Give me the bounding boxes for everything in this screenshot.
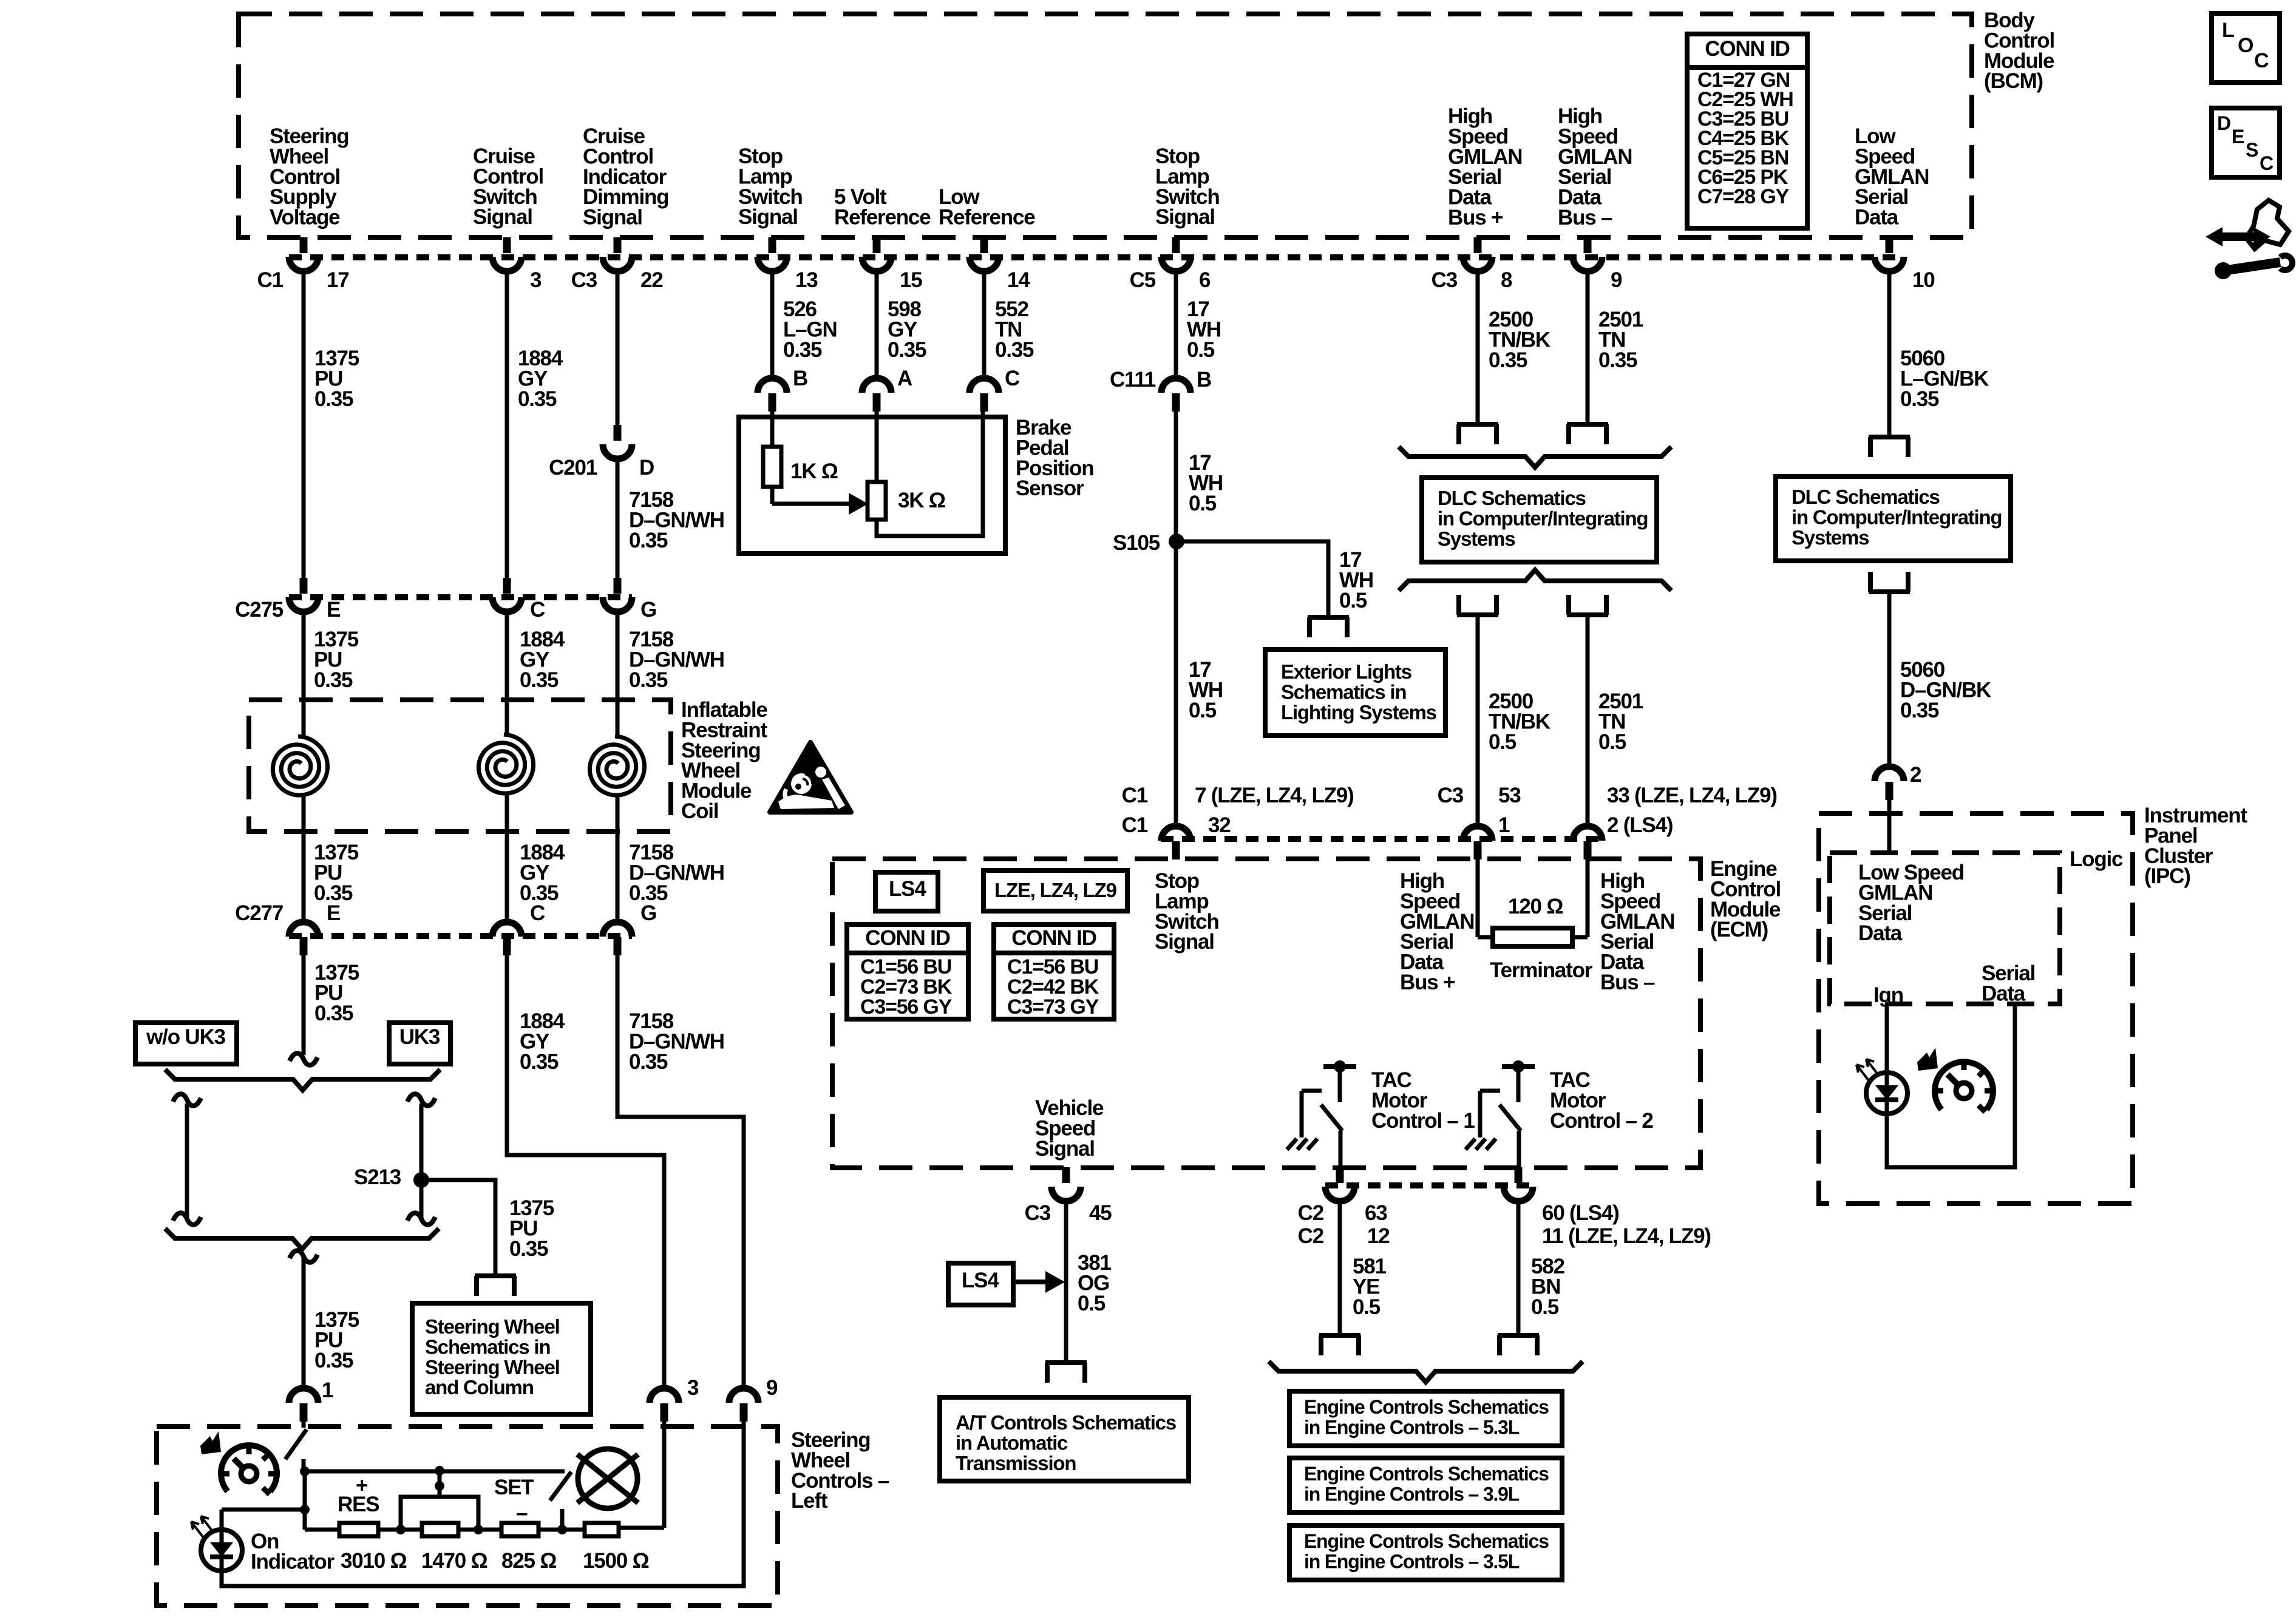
svg-text:Bus –: Bus – (1558, 206, 1612, 229)
wire: On Indicator return to connector 9 (222, 1422, 744, 1586)
wire: branch to On Indicator LED (222, 1510, 305, 1530)
svg-text:Terminator: Terminator (1490, 958, 1593, 982)
svg-text:Systems: Systems (1792, 526, 1869, 549)
reference box: Engine Controls Schematics 3.9L (1289, 1458, 1562, 1513)
svg-text:1: 1 (322, 1378, 333, 1402)
ECM bottom connector strip (dashed) (1325, 1182, 1533, 1188)
label: 2500 TN/BK 0.5 (1489, 690, 1550, 754)
wire: 7158, C201 to C275 (616, 459, 620, 578)
IPC pin label: Low Speed GMLAN Serial Data (1858, 861, 1964, 945)
svg-text:B: B (1197, 368, 1211, 392)
variant box LS4 with arrow (948, 1263, 1065, 1305)
wire: 1884 GY, C275 to coil (505, 612, 509, 734)
svg-text:2: 2 (1910, 763, 1921, 787)
svg-text:0.5: 0.5 (1598, 730, 1626, 754)
label: Brake Pedal Position Sensor (1016, 416, 1093, 500)
wire: Ign feed (1885, 1004, 1889, 1073)
label: 1375 PU 0.35 (below coil) (314, 841, 359, 905)
connector C275 terminal E (235, 578, 340, 622)
svg-text:1470 Ω: 1470 Ω (421, 1549, 487, 1573)
svg-text:0.35: 0.35 (629, 529, 668, 552)
reference box: A/T Controls Schematics (940, 1397, 1189, 1481)
svg-text:Engine Controls Schematics: Engine Controls Schematics (1304, 1530, 1549, 1552)
brace: GMLAN pair into DLC (1399, 447, 1671, 467)
label: Ign (1873, 983, 1903, 1007)
ECM bottom labels right (1542, 1201, 1711, 1248)
connector C277 row (dashed strip) (289, 933, 632, 939)
wire: 7158 down and over to connector 9 (617, 955, 744, 1388)
svg-text:Control – 2: Control – 2 (1550, 1109, 1653, 1133)
svg-text:2 (LS4): 2 (LS4) (1607, 813, 1673, 837)
reference box: Engine Controls Schematics 5.3L (1289, 1391, 1562, 1446)
svg-text:0.35: 0.35 (995, 338, 1034, 362)
svg-text:0.35: 0.35 (629, 668, 668, 692)
reference box: Exterior Lights Schematics in Lighting Systems (1265, 649, 1445, 736)
svg-text:C: C (2260, 152, 2274, 174)
svg-text:Systems: Systems (1438, 527, 1515, 550)
wire: circuit 598 GY, BCM 15 to sensor A (875, 271, 879, 378)
svg-text:O: O (2238, 34, 2254, 57)
svg-text:C2: C2 (1298, 1201, 1324, 1225)
svg-text:32: 32 (1208, 813, 1231, 837)
svg-text:3: 3 (530, 268, 542, 292)
fork: 2500 from DLC (1457, 595, 1498, 615)
svg-text:C1: C1 (1122, 813, 1148, 837)
module box: Instrument Panel Cluster (dashed) (1819, 813, 2133, 1204)
fork: 5060 to DLC (1869, 437, 1910, 457)
connector C111 terminal B (1110, 368, 1211, 412)
module box: Steering Wheel Controls - Left (dashed) (157, 1426, 778, 1605)
BCM pin label: High Speed GMLAN Serial Data Bus - (1558, 104, 1632, 229)
wire: circuit 2500 TN/BK, BCM C3-8 to DLC (1476, 271, 1480, 423)
fork: 2501 to DLC (1567, 424, 1608, 444)
wire: circuit 2501 TN, BCM 9 to DLC (1586, 271, 1590, 423)
icon: gauge in IPC (1934, 1060, 1994, 1112)
svg-text:A: A (897, 367, 912, 390)
svg-text:C7=28 GY: C7=28 GY (1697, 185, 1790, 208)
connector: sensor terminal B (758, 367, 807, 412)
wire: bus - to terminator (1586, 859, 1590, 937)
ECM connector row labels left (1122, 784, 1354, 837)
svg-text:C: C (530, 901, 545, 925)
connector: ECM TAC motor 1 output (1325, 1167, 1354, 1201)
svg-text:11 (LZE, LZ4, LZ9): 11 (LZE, LZ4, LZ9) (1542, 1224, 1711, 1248)
svg-text:0.35: 0.35 (314, 1349, 353, 1372)
fork to Exterior Lights schematics (1308, 617, 1349, 637)
wire: connector 3 lead inside box (662, 1422, 667, 1528)
svg-text:Lighting Systems: Lighting Systems (1281, 701, 1436, 724)
svg-text:LS4: LS4 (889, 877, 926, 901)
label: terminal 3 (687, 1376, 699, 1400)
svg-text:0.35: 0.35 (314, 387, 353, 411)
connector pin 13 at BCM (row) (758, 237, 818, 292)
reference box: DLC Schematics in Computer/Integrating Systems (right) (1776, 476, 2011, 561)
svg-text:17: 17 (327, 268, 349, 292)
svg-text:7 (LZE, LZ4, LZ9): 7 (LZE, LZ4, LZ9) (1195, 784, 1354, 807)
svg-text:A/T Controls Schematics: A/T Controls Schematics (956, 1411, 1176, 1434)
wire: 17 WH, S105 to ECM (1174, 541, 1178, 826)
label: 7158 D-GN/WH 0.35 (below coil) (629, 841, 724, 905)
connector C277 terminal C (492, 901, 545, 955)
bypass loop over 1470 ohm (401, 1497, 478, 1530)
icon: arrow at IPC gauge (1917, 1048, 1938, 1071)
label: Body Control Module (BCM) (1984, 8, 2054, 93)
fork: 581 to engine controls (1319, 1335, 1360, 1355)
wiper arm with arrow (772, 487, 868, 515)
brace: TAC pair into engine controls (1269, 1361, 1583, 1382)
svg-text:and Column: and Column (425, 1376, 534, 1398)
svg-text:E: E (327, 598, 340, 622)
svg-text:C201: C201 (549, 456, 597, 480)
svg-text:S105: S105 (1113, 531, 1160, 555)
svg-text:B: B (793, 367, 807, 390)
svg-text:1: 1 (1498, 813, 1510, 837)
svg-text:C: C (2254, 49, 2269, 72)
label: Logic (2070, 847, 2123, 871)
svg-text:(ECM): (ECM) (1710, 918, 1768, 941)
wire: circuit 381 OG (1064, 1201, 1068, 1361)
svg-text:0.35: 0.35 (520, 668, 559, 692)
svg-text:C277: C277 (235, 901, 283, 925)
svg-text:C5: C5 (1130, 268, 1156, 292)
svg-text:22: 22 (640, 268, 663, 292)
label: 2501 TN 0.35 (1598, 308, 1643, 372)
svg-text:C: C (1005, 367, 1020, 390)
svg-text:(IPC): (IPC) (2144, 864, 2190, 888)
svg-text:Bus +: Bus + (1400, 971, 1455, 994)
label: 17 WH 0.5 (mid) (1189, 451, 1223, 515)
svg-text:G: G (640, 598, 656, 622)
connector: steering wheel controls terminal 3 (650, 1388, 679, 1422)
svg-text:0.5: 0.5 (1189, 492, 1217, 515)
svg-text:Reference: Reference (834, 205, 931, 229)
brace: UK3 variant merge (lower) (165, 1229, 439, 1249)
junction: On Indicator tap (300, 1505, 310, 1514)
wire: 3K bottom loop to C lead (877, 412, 983, 536)
wire: circuit 5060 L-GN/BK, BCM 10 to DLC (1887, 271, 1892, 436)
svg-text:DLC Schematics: DLC Schematics (1792, 486, 1940, 508)
wire: 1884 GY, coil to C277 (505, 793, 509, 922)
svg-text:13: 13 (795, 268, 818, 292)
component box: Brake Pedal Position Sensor (739, 417, 1005, 554)
svg-text:Data: Data (1982, 981, 2026, 1005)
resistor 1K ohm (vertical) (763, 447, 838, 487)
svg-text:C3: C3 (571, 268, 597, 292)
engine variant box LS4 (875, 872, 938, 911)
label: Steering Wheel Controls - Left (791, 1428, 889, 1513)
svg-text:Left: Left (791, 1489, 828, 1513)
svg-text:0.5: 0.5 (1339, 589, 1367, 612)
module box: Body Control Module (BCM) (239, 14, 1972, 237)
svg-text:in Computer/Integrating: in Computer/Integrating (1438, 507, 1648, 529)
ECM pin label: High Speed GMLAN Serial Data Bus + (1400, 869, 1474, 994)
svg-text:Logic: Logic (2070, 847, 2123, 871)
junction: rail node A (396, 1525, 406, 1534)
wire: serial data into logic (1887, 800, 1892, 853)
junction: rail node C (SET contact) (557, 1525, 567, 1534)
junction: top rail centre (435, 1466, 444, 1476)
BCM pin label: Low Speed GMLAN Serial Data (1855, 124, 1929, 229)
svg-text:3: 3 (687, 1376, 699, 1400)
icon: LOC reference box (2212, 13, 2280, 83)
svg-text:UK3: UK3 (399, 1025, 440, 1049)
ECM pin label: Stop Lamp Switch Signal (1155, 869, 1219, 954)
svg-text:CONN ID: CONN ID (1011, 926, 1096, 950)
svg-text:Exterior Lights: Exterior Lights (1281, 660, 1411, 683)
label: 526 L-GN 0.35 (783, 297, 837, 362)
connector C277 terminal E (235, 901, 340, 955)
BCM pin label: Low Reference (939, 185, 1035, 229)
svg-text:S213: S213 (354, 1165, 401, 1189)
wire: 7158, coil to C277 (616, 795, 620, 922)
connector pin 17 at BCM (terminal C1) (257, 237, 349, 292)
wire: circuit 1884 GY, BCM 3 down to C275 (505, 271, 509, 578)
resistor 1470 ohm (421, 1523, 487, 1573)
label: 2500 TN/BK 0.35 (1489, 308, 1550, 372)
svg-text:Signal: Signal (1155, 930, 1214, 954)
svg-text:DLC Schematics: DLC Schematics (1438, 487, 1586, 509)
label: 1375 PU 0.35 (below C275) (314, 628, 359, 692)
connector: steering wheel controls terminal 1 (289, 1388, 318, 1422)
connector C275 terminal G (603, 578, 656, 622)
connector pin 10 at BCM (row) (1875, 237, 1935, 292)
svg-text:9: 9 (766, 1376, 778, 1400)
wire: 1375 PU to connector 1 (290, 1250, 318, 1388)
svg-text:0.35: 0.35 (314, 1002, 353, 1025)
svg-text:120 Ω: 120 Ω (1508, 895, 1563, 918)
svg-text:0.35: 0.35 (518, 387, 557, 411)
ECM connector row labels centre (1438, 784, 1521, 837)
svg-text:Engine Controls Schematics: Engine Controls Schematics (1304, 1463, 1549, 1485)
BCM pin label: Steering Wheel Control Supply Voltage (270, 124, 348, 229)
svg-text:14: 14 (1007, 268, 1030, 292)
label: 1375 PU 0.35 (S213 branch) (509, 1196, 554, 1261)
label: TAC Motor Control - 2 (1550, 1068, 1653, 1133)
label: 1884 GY 0.35 (lower) (520, 1009, 565, 1074)
svg-text:0.35: 0.35 (1598, 348, 1637, 372)
label: 5060 L-GN/BK 0.35 (1900, 347, 1989, 411)
wire: circuit 1375 PU, BCM C1-17 down to C275 (302, 271, 306, 578)
ECM pin label: High Speed GMLAN Serial Data Bus - (1600, 869, 1674, 994)
label: Inflatable Restraint Steering Wheel Module Coil (681, 698, 767, 823)
fork: 2500 to DLC (1457, 424, 1498, 444)
engine variant box LZE LZ4 LZ9 (983, 870, 1127, 911)
label: terminal 2 (1910, 763, 1921, 787)
svg-text:SET: SET (494, 1476, 534, 1499)
svg-text:60 (LS4): 60 (LS4) (1542, 1201, 1619, 1225)
connector: ECM GMLAN bus - pin 2 (1573, 826, 1602, 859)
BCM pin label: Stop Lamp Switch Signal (738, 144, 803, 229)
svg-text:D: D (2217, 112, 2230, 134)
svg-text:0.35: 0.35 (1900, 699, 1939, 722)
label: + RES (338, 1474, 379, 1516)
reference box: Steering Wheel Schematics (412, 1303, 591, 1414)
fork: 2501 from DLC (1567, 595, 1608, 615)
label: Vehicle Speed Signal (1035, 1096, 1104, 1161)
wire: 2500 TN/BK, DLC to ECM (1476, 615, 1480, 826)
label: 1884 GY 0.35 (below coil) (520, 841, 565, 905)
label: Serial Data (1982, 961, 2035, 1005)
coil spiral 3 (7158 D-GN/WH) (589, 736, 644, 795)
label: Engine Control Module (ECM) (1710, 857, 1781, 941)
svg-text:Signal: Signal (738, 205, 798, 229)
svg-text:Engine Controls Schematics: Engine Controls Schematics (1304, 1396, 1549, 1418)
variant box: UK3 (389, 1023, 450, 1064)
svg-text:in Engine Controls – 5.3L: in Engine Controls – 5.3L (1304, 1416, 1520, 1438)
svg-text:Signal: Signal (1035, 1137, 1095, 1161)
label: terminal 1 (322, 1378, 333, 1402)
svg-text:RES: RES (338, 1493, 379, 1516)
connector pin 15 at BCM (row) (862, 237, 922, 292)
wire: A lead to 3K (875, 412, 879, 482)
label: 1884 GY 0.35 (upper) (518, 347, 563, 411)
TAC motor control 2 driver (1466, 1060, 1535, 1168)
wire: S213 branch to Steering Wheel Schematics (421, 1180, 495, 1275)
connector C275 row (dashed strip) (289, 594, 632, 600)
wire: left rail down (303, 1471, 307, 1530)
BCM pin label: Stop Lamp Switch Signal (C5) (1155, 144, 1220, 229)
svg-text:G: G (640, 901, 656, 925)
resistor 1500 ohm (583, 1523, 649, 1573)
svg-text:C1: C1 (257, 268, 284, 292)
svg-text:63: 63 (1365, 1201, 1387, 1225)
svg-text:1500 Ω: 1500 Ω (583, 1549, 649, 1573)
connector: ECM TAC motor 2 output (1504, 1167, 1533, 1201)
svg-text:0.35: 0.35 (520, 1050, 559, 1074)
svg-text:w/o UK3: w/o UK3 (146, 1025, 225, 1049)
svg-text:825 Ω: 825 Ω (501, 1549, 556, 1573)
connector pin 6 at BCM (terminal C5) (1130, 237, 1211, 292)
svg-text:0.35: 0.35 (1900, 387, 1939, 411)
label: 552 TN 0.35 (995, 297, 1034, 362)
coil spiral 1 (1375 PU) (273, 736, 327, 795)
connector: IPC terminal 2 (1875, 767, 1904, 800)
label: 598 GY 0.35 (888, 297, 926, 362)
brace: GMLAN pair out of DLC (1399, 570, 1671, 591)
TAC motor control 1 driver (1287, 1060, 1356, 1168)
BCM pin label: Cruise Control Switch Signal (473, 144, 543, 229)
svg-text:3010 Ω: 3010 Ω (341, 1549, 407, 1573)
svg-text:8: 8 (1501, 268, 1512, 292)
branch w/o UK3: bracket wire (173, 1094, 201, 1225)
connector: ECM vehicle speed signal C3-45 (1025, 1167, 1112, 1225)
svg-text:15: 15 (900, 268, 922, 292)
svg-text:10: 10 (1912, 268, 1935, 292)
wire: top rail (305, 1470, 565, 1474)
label: 582 BN 0.5 (1531, 1255, 1565, 1319)
LED: telltale in IPC (1856, 1059, 1907, 1114)
svg-text:CONN ID: CONN ID (1705, 37, 1789, 61)
connector pin 14 at BCM (row) (970, 237, 1030, 292)
switch: cruise on/off (285, 1422, 307, 1471)
svg-text:Sensor: Sensor (1016, 476, 1084, 500)
connector C275 terminal C (492, 578, 545, 622)
BCM pin label: High Speed GMLAN Serial Data Bus + (1448, 104, 1522, 229)
svg-text:D: D (639, 456, 654, 480)
stub to 1470 bypass (435, 1471, 444, 1497)
svg-text:C3=56 GY: C3=56 GY (860, 995, 953, 1019)
svg-text:6: 6 (1199, 268, 1211, 292)
wire: 1375 PU, C275 to coil (302, 612, 306, 736)
wire: 17 WH, C111 to S105 (1174, 412, 1178, 541)
svg-text:in Engine Controls – 3.9L: in Engine Controls – 3.9L (1304, 1483, 1520, 1505)
svg-text:33 (LZE, LZ4, LZ9): 33 (LZE, LZ4, LZ9) (1607, 784, 1777, 807)
wire: circuit 552 TN, BCM 14 to sensor C (982, 271, 987, 378)
svg-text:C: C (530, 598, 545, 622)
wire: B lead to 1K (770, 412, 775, 447)
lamp: illumination (577, 1449, 638, 1508)
svg-text:C3: C3 (1438, 784, 1464, 807)
logic box (dashed) (1830, 853, 2060, 1004)
icon: pointer arrow with wrench (2206, 200, 2292, 279)
label: 2501 TN 0.5 (1598, 690, 1643, 754)
label: 7158 D-GN/WH 0.35 (below C275) (629, 628, 724, 692)
svg-text:Data: Data (1855, 206, 1899, 229)
connector pin 9 at BCM (row) (1573, 237, 1622, 292)
svg-text:C1: C1 (1122, 784, 1148, 807)
resistor 3010 ohm (339, 1523, 407, 1573)
svg-text:Ign: Ign (1873, 983, 1903, 1007)
label: TAC Motor Control - 1 (1371, 1068, 1475, 1133)
svg-text:L: L (2222, 19, 2234, 42)
svg-text:Data: Data (1858, 921, 1903, 945)
icon: arrow at gauge (200, 1431, 221, 1454)
fork to Steering Wheel Schematics (475, 1276, 516, 1296)
module box: Inflatable Restraint Steering Wheel Module Coil (dashed) (249, 700, 671, 832)
connector: ECM stop lamp switch signal (1161, 826, 1190, 859)
splice S105 (1113, 531, 1184, 555)
BCM connector strip C1..C3 (dashed) (289, 254, 1904, 260)
brace: UK3 variant split (upper) (165, 1070, 440, 1090)
ECM bottom labels left (1298, 1201, 1390, 1248)
reference box: Engine Controls Schematics 3.5L (1289, 1525, 1562, 1580)
coil spiral 2 (1884 GY) (478, 734, 533, 793)
ECM connector strip (dashed) (1161, 836, 1602, 842)
svg-text:0.5: 0.5 (1078, 1292, 1106, 1315)
BCM CONN ID table (1687, 34, 1807, 228)
label: terminal 9 (766, 1376, 778, 1400)
svg-text:0.35: 0.35 (783, 338, 822, 362)
fork: 582 to engine controls (1498, 1335, 1539, 1355)
label: 17 WH 0.5 (upper) (1187, 297, 1221, 362)
svg-text:LZE, LZ4, LZ9: LZE, LZ4, LZ9 (994, 879, 1117, 901)
svg-text:0.35: 0.35 (314, 668, 353, 692)
reference box: DLC Schematics in Computer/Integrating Systems (centre) (1422, 478, 1657, 562)
svg-text:1K Ω: 1K Ω (790, 459, 838, 483)
svg-text:0.35: 0.35 (509, 1237, 548, 1261)
svg-text:Indicator: Indicator (251, 1550, 335, 1573)
svg-text:Signal: Signal (473, 205, 532, 229)
svg-text:0.35: 0.35 (888, 338, 926, 362)
svg-text:Steering Wheel: Steering Wheel (425, 1315, 560, 1338)
wire: circuit 17 WH, BCM C5-6 to C111 (1174, 271, 1178, 378)
svg-text:Coil: Coil (681, 799, 718, 823)
variant box: w/o UK3 (135, 1023, 237, 1064)
connector pin 8 at BCM (terminal C3) (1432, 237, 1512, 292)
wire: bus + to terminator (1476, 859, 1480, 937)
junction: rail node B (474, 1525, 483, 1534)
svg-text:C3: C3 (1432, 268, 1458, 292)
svg-text:C111: C111 (1110, 368, 1156, 392)
label: 381 OG 0.5 (1078, 1251, 1112, 1315)
label: 1375 PU 0.35 (upper) (314, 347, 359, 411)
label: 7158 D-GN/WH 0.35 (lower) (629, 1009, 724, 1074)
connector pin 22 at BCM (terminal C3) (571, 237, 664, 292)
svg-text:Voltage: Voltage (270, 206, 340, 229)
connector C201 terminal D (549, 425, 654, 480)
label: SET - (494, 1476, 534, 1525)
svg-text:Schematics in: Schematics in (425, 1335, 550, 1358)
